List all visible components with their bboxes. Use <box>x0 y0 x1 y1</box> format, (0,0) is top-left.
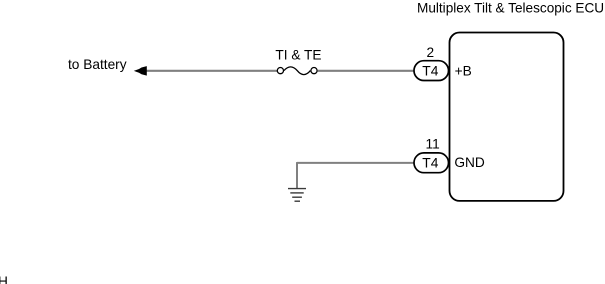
svg-text:TI & TE: TI & TE <box>275 47 321 62</box>
svg-text:T4: T4 <box>422 64 438 79</box>
svg-text:H: H <box>0 274 8 284</box>
arrowhead to Battery <box>134 66 147 76</box>
svg-text:GND: GND <box>454 155 485 170</box>
svg-text:Multiplex Tilt & Telescopic EC: Multiplex Tilt & Telescopic ECU <box>417 0 604 15</box>
fuse TI & TE : right terminal circle <box>311 68 317 74</box>
fuse TI & TE : wave element <box>284 67 310 75</box>
connector pin T4 pin 11 <box>414 153 449 173</box>
wire: battery feed (arrow to fuse) <box>140 70 277 72</box>
wire: GND run (vertical drop) <box>296 162 298 188</box>
svg-text:11: 11 <box>426 137 440 152</box>
svg-text:+B: +B <box>455 64 472 79</box>
wire: GND run (horizontal) <box>297 162 415 164</box>
svg-text:to Battery: to Battery <box>68 57 127 72</box>
svg-text:T4: T4 <box>422 156 438 171</box>
ground symbol <box>288 189 306 202</box>
fuse TI & TE : left terminal circle <box>277 68 283 74</box>
connector pin T4 pin 2 <box>414 61 449 81</box>
svg-text:2: 2 <box>427 45 435 60</box>
ECU box <box>450 33 564 201</box>
wire: fuse to pin 2 <box>318 70 415 72</box>
